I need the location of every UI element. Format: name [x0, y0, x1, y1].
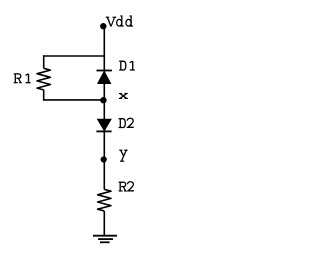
diode D1 (cathode bar): [97, 70, 112, 72]
node Vdd (junction dot): [100, 23, 106, 29]
ground (middle bar): [98, 238, 113, 240]
node x (junction dot): [100, 97, 106, 103]
diode D1 label: [119, 61, 135, 71]
resistor R1 label: [14, 73, 31, 83]
diode D2 label: [119, 118, 134, 128]
node y (junction dot): [101, 156, 107, 162]
diode D1 (triangle, pointing up): [98, 71, 111, 83]
diode D2 (triangle, pointing down): [97, 119, 111, 131]
ground (bottom bar): [100, 241, 110, 243]
diode D2 (cathode bar): [96, 130, 111, 132]
resistor R2 label: [119, 182, 134, 192]
wire: bottom branch horizontal: [43, 99, 103, 101]
wire: main vertical rail from R2 bottom to ground: [103, 211, 105, 236]
wire: R1 bottom lead: [43, 90, 45, 101]
resistor R1: [37, 68, 50, 90]
wire: main vertical rail from Vdd down to R2 top: [103, 26, 105, 189]
node y label: [119, 150, 128, 161]
node Vdd label: [106, 16, 133, 27]
wire: R1 top lead: [43, 55, 45, 68]
ground (top bar): [93, 235, 117, 237]
node x label: [119, 94, 128, 99]
resistor R2: [98, 189, 111, 211]
wire: top branch horizontal: [43, 55, 104, 57]
